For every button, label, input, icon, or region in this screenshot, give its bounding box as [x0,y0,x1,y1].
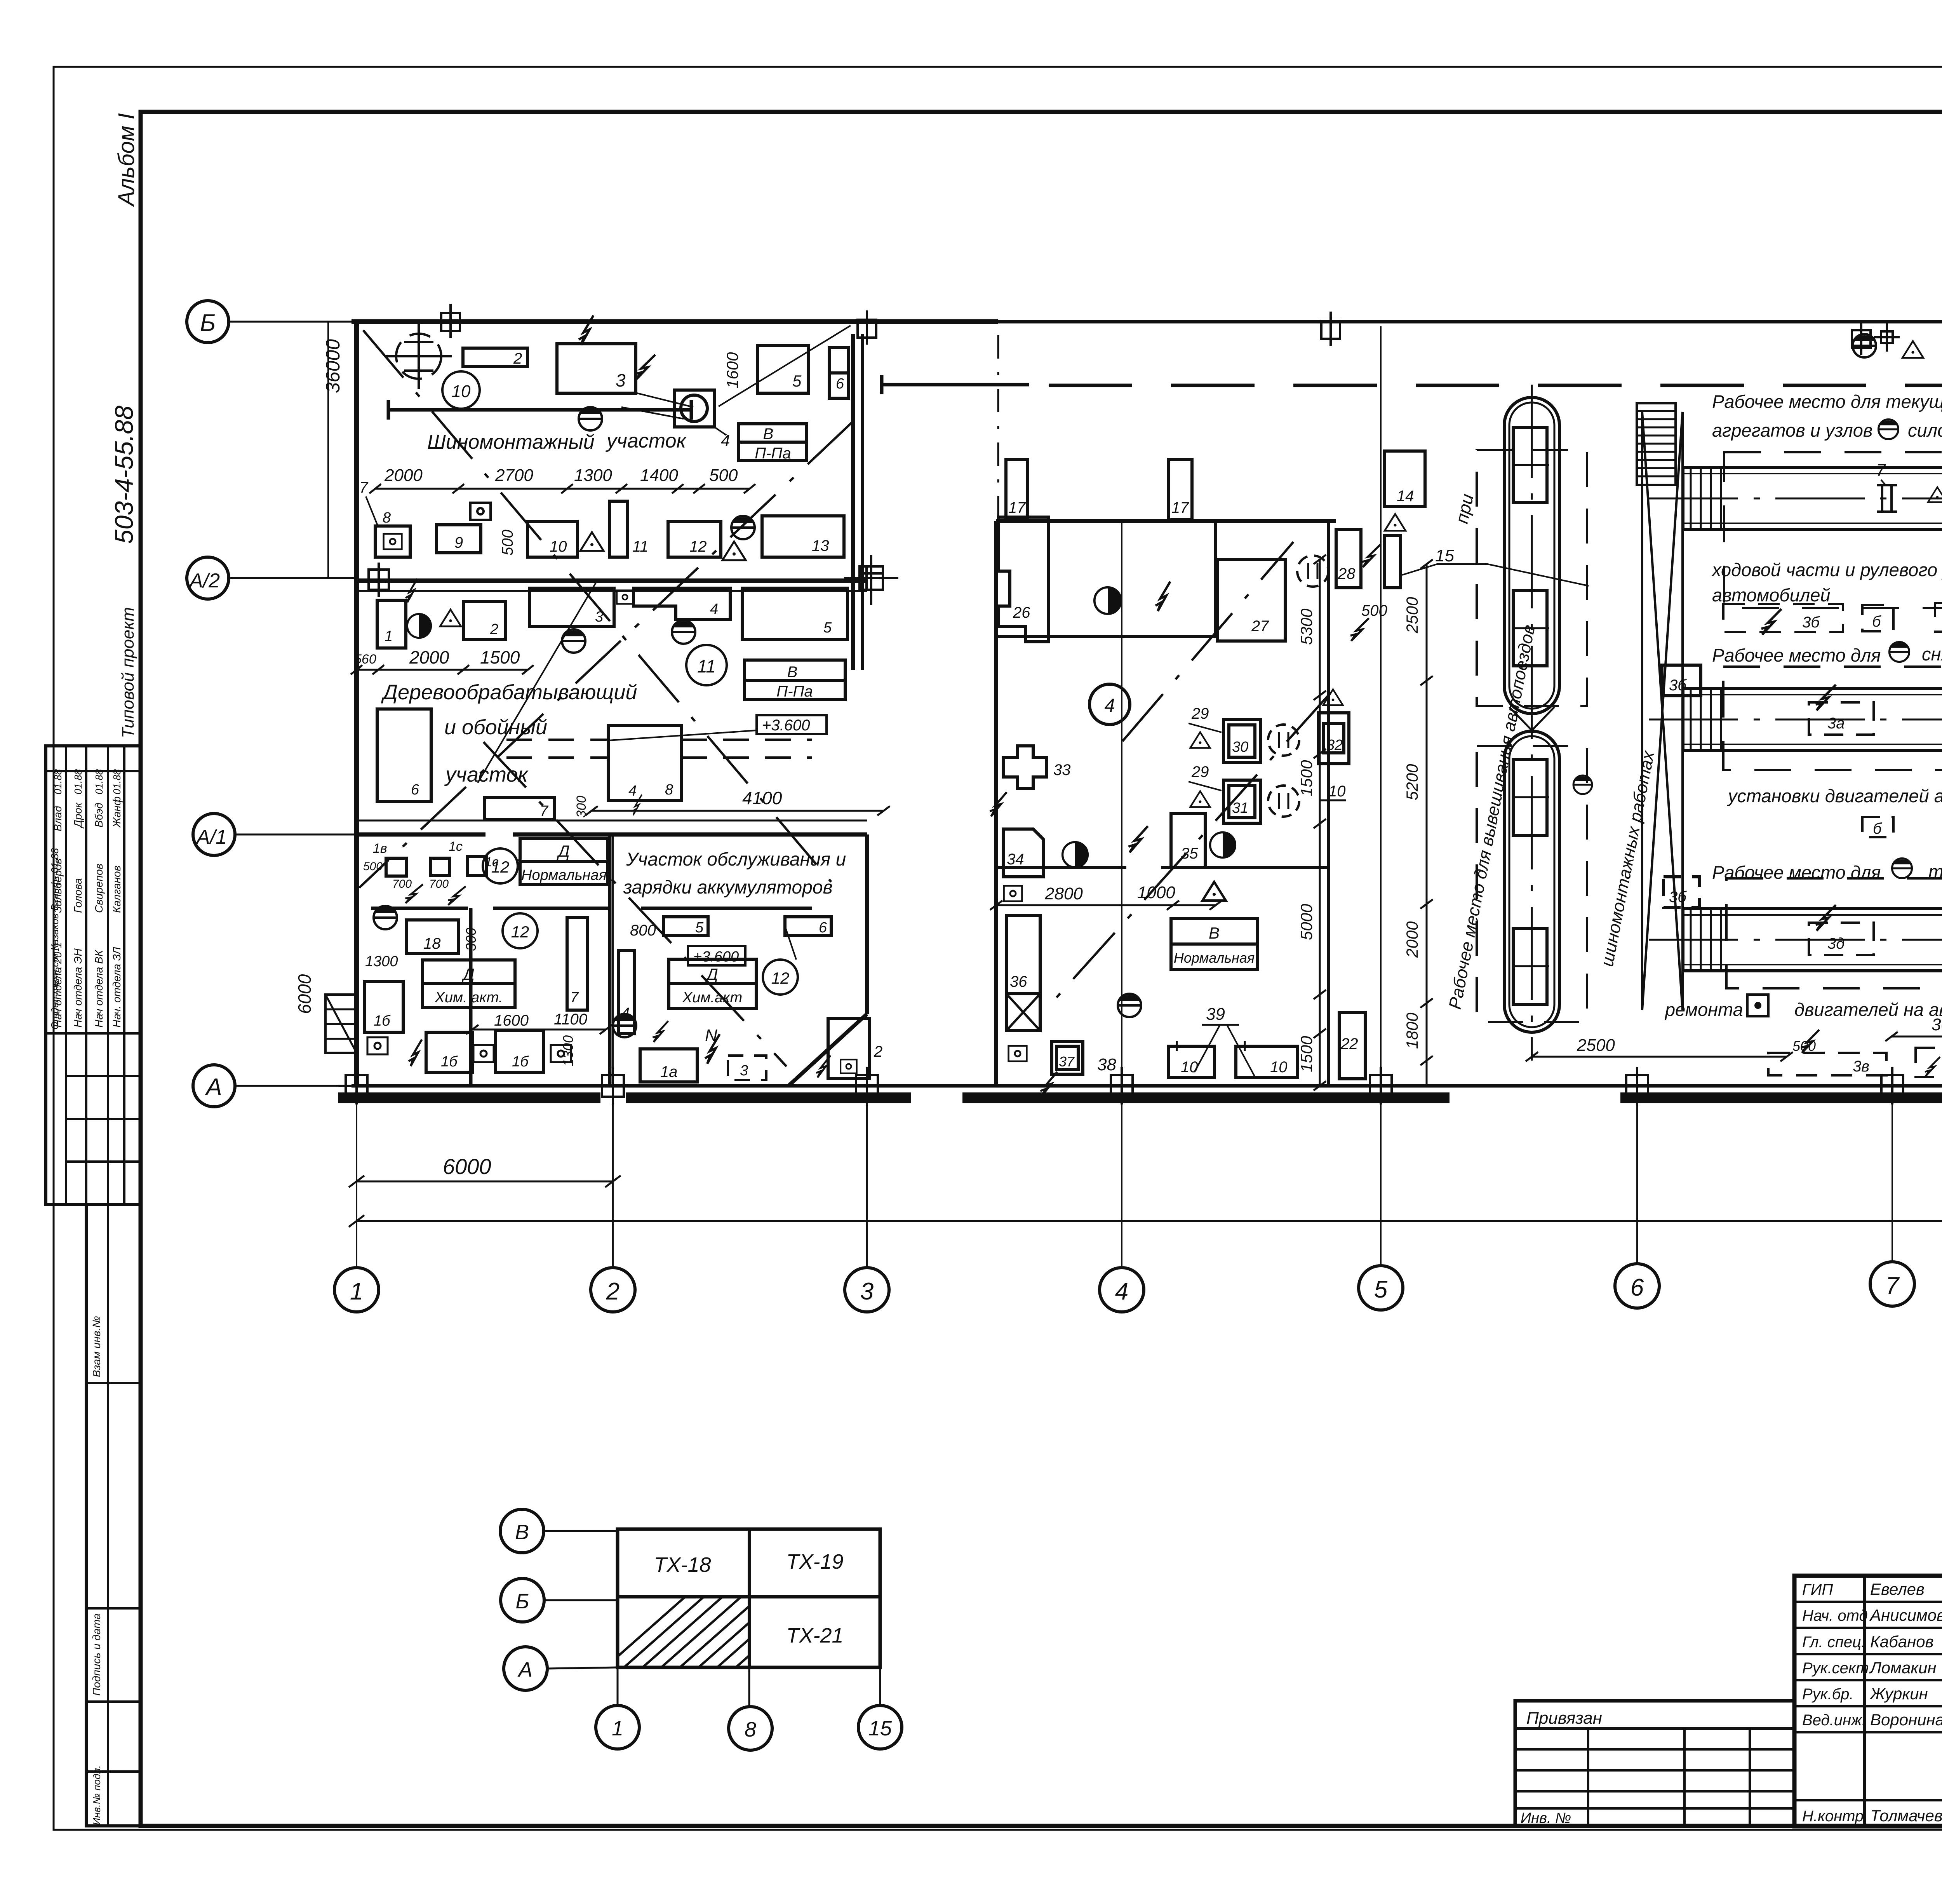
svg-text:7: 7 [1876,461,1886,480]
svg-text:Привязан: Привязан [1526,1709,1602,1728]
left wall [354,319,359,1086]
row axes leaders [229,321,357,323]
svg-text:ТХ-18: ТХ-18 [654,1553,711,1577]
svg-text:и обойный: и обойный [444,716,547,739]
svg-text:33: 33 [1053,761,1071,779]
equipment 6 [829,348,849,398]
svg-text:Голова: Голова [72,878,84,913]
svg-text:5000: 5000 [1297,904,1316,940]
key plan outline [618,1529,880,1667]
accum partitions [371,907,468,910]
svg-text:1800: 1800 [1403,1012,1421,1049]
svg-text:П-Па: П-Па [755,445,791,462]
circle label 10 [442,371,480,409]
equipment 3 [557,344,636,393]
svg-text:2: 2 [874,1043,882,1060]
svg-text:Гл. спец.: Гл. спец. [1802,1634,1865,1651]
machine 8 big [608,726,681,800]
vertical dim chain x=3673 [1426,564,1428,1086]
svg-text:+3.600: +3.600 [693,949,739,965]
svg-text:3б: 3б [1802,614,1820,631]
equipment 16 column [365,981,403,1032]
external stair hatch [325,995,357,1053]
label Д Нормальная [520,838,608,885]
rack 15 [1384,535,1401,588]
dash-dot diagonal middle [1049,695,1328,1006]
top right symbols [1853,334,1876,357]
svg-text:9: 9 [454,534,463,551]
svg-text:1б: 1б [374,1013,391,1029]
elevation +3.600 [757,715,827,734]
svg-text:11: 11 [632,538,649,555]
stair ladder top [1637,403,1676,485]
label В Нормальная [1171,918,1257,969]
svg-text:1а: 1а [660,1063,678,1080]
svg-text:4: 4 [1105,695,1115,716]
svg-text:1600: 1600 [494,1012,529,1029]
machine 12 [668,522,721,557]
machine 35 [1171,814,1205,868]
svg-text:22: 22 [1340,1035,1358,1052]
svg-text:2000: 2000 [409,647,449,667]
label Д Хим.акт #2 [669,959,756,1009]
svg-text:17: 17 [1171,499,1189,516]
dashed work zone around pits [1477,450,1587,706]
svg-text:5: 5 [823,620,832,636]
svg-text:1: 1 [612,1717,623,1740]
svg-text:1100: 1100 [554,1011,587,1028]
svg-text:12: 12 [689,538,707,555]
svg-text:500: 500 [363,860,383,873]
svg-text:Ломакин: Ломакин [1869,1658,1937,1677]
svg-text:Альбом I: Альбом I [114,113,139,207]
wall on axis А/1 [357,833,486,837]
svg-text:3в: 3в [1853,1058,1869,1075]
svg-text:Взам инв.№: Взам инв.№ [90,1316,103,1377]
svg-text:Хим. акт.: Хим. акт. [435,989,503,1006]
equipment 2 shelf [463,348,527,367]
bench 7 [485,798,554,819]
svg-text:7: 7 [1886,1272,1900,1299]
svg-text:560: 560 [354,652,376,667]
machine 3 [529,588,614,627]
svg-text:Отдел техн ст Казаков Вга: Отдел техн ст Казаков Вганф- 01.88 [49,848,61,1030]
equipment 18 [406,920,459,954]
svg-text:31: 31 [1232,800,1248,816]
machine 37 38 [1009,1046,1027,1061]
svg-text:3а: 3а [1827,715,1845,732]
svg-text:А/2: А/2 [188,570,220,592]
leader diagonal [478,579,598,783]
solid box 3б [1662,665,1701,696]
machine 10 [527,522,578,557]
svg-text:29: 29 [1191,763,1209,780]
svg-text:2: 2 [513,350,522,367]
svg-text:6000: 6000 [443,1154,491,1179]
svg-text:Д: Д [557,842,570,860]
N mark [705,1034,720,1064]
svg-text:В: В [515,1521,529,1544]
svg-text:Рабочее место для: Рабочее место для [1712,862,1881,883]
machine 1 [377,600,406,648]
wall on axis А/2 [357,578,867,583]
machine 34 [1003,829,1043,877]
svg-text:01.88: 01.88 [111,769,123,794]
bottom machines [426,1032,472,1072]
svg-text:агрегатов и узлов: агрегатов и узлов [1712,420,1872,441]
svg-text:2: 2 [490,621,498,638]
svg-text:2800: 2800 [1044,884,1083,903]
svg-text:Толмачева: Толмачева [1870,1806,1942,1825]
svg-text:800: 800 [630,922,656,939]
svg-text:Инв.№ подл.: Инв.№ подл. [91,1765,103,1825]
svg-text:26: 26 [1013,604,1030,621]
svg-text:А/1: А/1 [195,826,227,848]
machine 26 stepped [999,517,1049,642]
vertical dim chain at x 3398 [1319,559,1321,1086]
svg-text:Нормальная: Нормальная [521,867,607,883]
svg-text:35: 35 [1181,845,1198,862]
chamfer wall [788,1014,867,1086]
category label В / П-IIа #2 [745,660,845,700]
svg-text:снятия и: снятия и [1922,644,1942,664]
svg-text:А: А [517,1658,532,1681]
svg-text:6: 6 [411,782,419,798]
svg-text:автомобилей: автомобилей [1712,585,1831,605]
section diagonals dash-dot [359,330,853,1066]
svg-text:Нач отдела ВК: Нач отдела ВК [93,949,105,1028]
svg-text:30: 30 [1232,739,1248,755]
svg-text:01.88: 01.88 [93,769,105,794]
svg-text:27: 27 [1251,618,1269,635]
svg-text:12: 12 [771,969,790,987]
machine 28 [1336,530,1361,588]
svg-text:Деревообрабатывающий: Деревообрабатывающий [381,681,637,704]
svg-text:2000: 2000 [384,466,423,485]
dashed 3 [728,1056,766,1080]
svg-text:12: 12 [491,858,510,876]
svg-text:двигателей на автомобиле: двигателей на автомобиле [1794,999,1942,1020]
svg-text:10: 10 [1270,1059,1288,1076]
top wall [352,319,998,324]
solid box 3б #2 [1664,877,1699,908]
svg-text:Вбэд: Вбэд [93,803,105,827]
small battery boxes [386,858,406,876]
svg-text:7: 7 [570,989,579,1006]
svg-text:36: 36 [1010,973,1027,990]
svg-text:10: 10 [1181,1059,1198,1076]
equipment 1а [640,1049,697,1082]
svg-text:38: 38 [1097,1055,1116,1074]
svg-text:6: 6 [836,376,844,392]
svg-text:3000: 3000 [1932,1015,1942,1034]
signature table [46,746,141,1204]
machine 8 [375,526,410,557]
truck outline [1683,688,1942,751]
svg-text:17: 17 [1008,499,1026,516]
svg-text:1500: 1500 [480,647,520,667]
crane beam middle [882,383,1029,387]
dim 6000 [357,1181,613,1183]
svg-text:Рук.бр.: Рук.бр. [1802,1686,1854,1703]
svg-text:1б: 1б [441,1054,458,1070]
circle label 11 [686,645,727,685]
svg-text:34: 34 [1007,851,1024,868]
big circle 4 [1089,684,1130,725]
partial wall right of left block [851,334,855,670]
svg-text:4: 4 [1115,1278,1128,1305]
svg-text:участок: участок [444,763,529,786]
svg-text:15: 15 [868,1717,892,1740]
dashed conveyor rail [506,739,608,741]
lattice brace column [1642,412,1683,1010]
tyre machine 4 [674,390,714,427]
svg-text:4: 4 [710,601,718,617]
svg-text:1300: 1300 [365,953,398,970]
svg-text:участок: участок [606,430,687,452]
crane dashed line [1049,384,1942,387]
truck outline [1683,467,1942,530]
svg-text:А: А [204,1074,222,1101]
svg-text:5200: 5200 [1403,764,1421,800]
svg-text:5300: 5300 [1297,608,1316,645]
svg-text:6000: 6000 [294,974,315,1014]
svg-text:700: 700 [429,878,449,890]
dims 2800 1000 [990,901,1222,910]
svg-text:6: 6 [819,920,827,936]
lightning strikes [579,315,593,345]
svg-text:3: 3 [616,370,626,390]
machine 11 [609,501,627,557]
svg-text:36000: 36000 [322,339,344,393]
svg-text:Нач. отд: Нач. отд [1802,1607,1868,1624]
svg-text:2500: 2500 [1577,1036,1615,1055]
svg-text:2: 2 [606,1278,619,1305]
svg-text:11: 11 [697,656,716,676]
svg-text:Хим.акт: Хим.акт [682,989,742,1006]
svg-text:Жанф: Жанф [111,796,123,828]
svg-text:Вед.инж.: Вед.инж. [1802,1712,1866,1729]
svg-text:10: 10 [550,538,567,555]
machine 13 [762,516,844,557]
svg-text:Рабочее место для: Рабочее место для [1712,645,1881,665]
svg-text:ходовой части и рулевого управ: ходовой части и рулевого управления [1711,559,1942,580]
machine 36 [1006,915,1040,994]
plinth strips [338,1092,600,1103]
svg-text:1: 1 [350,1278,363,1305]
machine 4 [633,588,730,619]
svg-text:Рабочее место для текущего ре: Рабочее место для текущего ремонта [1712,391,1942,412]
svg-text:3б: 3б [1669,888,1687,906]
svg-text:8: 8 [665,782,673,798]
svg-text:15: 15 [1435,546,1454,565]
column bubbles [334,1268,379,1312]
svg-text:503-4-55.88: 503-4-55.88 [110,406,138,544]
svg-text:500: 500 [499,530,516,556]
svg-text:1с: 1с [449,839,463,854]
svg-text:б: б [1873,820,1882,837]
machine 5 [742,588,847,639]
dim 2500 bottom [1526,1052,1793,1061]
svg-text:6: 6 [1631,1274,1644,1301]
row grid bubbles [187,301,229,343]
svg-text:2500: 2500 [1403,597,1421,634]
svg-text:Подпись и дата: Подпись и дата [90,1613,103,1696]
monorail beam left block [388,408,691,412]
svg-text:+3.600: +3.600 [762,717,810,734]
svg-text:зарядки аккумуляторов: зарядки аккумуляторов [623,877,833,898]
machine 9 [470,503,491,520]
svg-text:Журкин: Журкин [1869,1685,1928,1703]
svg-text:Дрок: Дрок [72,802,84,829]
machine 6 tall [377,709,431,801]
svg-text:5: 5 [792,372,802,390]
svg-text:2700: 2700 [495,466,533,485]
machine 33 [1003,746,1046,789]
svg-text:силовой передачи: силовой передачи [1908,420,1942,441]
svg-text:ГИП: ГИП [1802,1581,1833,1598]
slab edge line [357,820,867,822]
axis leader dash-dot [997,335,999,521]
svg-text:500: 500 [1361,602,1387,619]
svg-text:П-Па: П-Па [776,683,813,700]
svg-text:7: 7 [359,479,369,496]
svg-text:1300: 1300 [574,466,612,485]
svg-text:5: 5 [1374,1276,1388,1303]
svg-text:10: 10 [452,382,471,401]
svg-text:8: 8 [745,1718,756,1741]
svg-text:ремонта: ремонта [1664,999,1743,1020]
svg-text:8: 8 [383,510,391,526]
svg-text:Рук.сект.: Рук.сект. [1802,1660,1873,1677]
valve symbol [579,407,602,430]
svg-text:1400: 1400 [640,466,678,485]
svg-text:ТХ-21: ТХ-21 [786,1624,843,1647]
svg-text:Нач. отдела ЗЛ: Нач. отдела ЗЛ [111,947,123,1028]
svg-text:Нормальная: Нормальная [1174,950,1255,966]
svg-text:300: 300 [463,928,479,951]
svg-text:5: 5 [695,920,704,936]
bin 14 [1384,451,1425,507]
machine 27 [1217,559,1285,641]
dim 4100 [585,806,890,815]
equipment 2 tall [828,1019,870,1078]
svg-text:14: 14 [1397,488,1414,505]
category label В / П-IIа [739,424,807,461]
svg-text:01.88: 01.88 [72,769,84,794]
svg-text:700: 700 [392,878,412,890]
leader to equipment 4 [637,393,693,407]
svg-text:Инв. №: Инв. № [1521,1810,1571,1826]
column axes [356,1086,357,1268]
svg-text:1500: 1500 [1297,760,1316,796]
svg-text:установки двигателей авт: установки двигателей автомобилей [1727,786,1942,806]
rack 32 [1319,713,1349,764]
svg-text:б: б [1872,613,1881,630]
svg-text:N: N [705,1026,717,1045]
svg-text:Б: Б [515,1590,529,1613]
svg-text:13: 13 [812,537,829,554]
svg-text:Анисимов: Анисимов [1869,1606,1942,1624]
bottom wall [352,1084,1942,1088]
svg-text:Влад: Влад [52,806,64,831]
vehicles in pit 1 [1513,427,1547,503]
svg-text:Б: Б [200,310,216,336]
svg-text:4100: 4100 [742,788,782,808]
svg-text:500: 500 [709,466,738,485]
svg-text:В: В [787,664,798,681]
equipment 5 [757,345,808,393]
svg-text:4: 4 [628,783,637,799]
svg-text:Нач отдела ЭН: Нач отдела ЭН [72,948,84,1028]
shelf 5 and 6 [663,917,708,935]
svg-text:Воронина: Воронина [1870,1711,1942,1729]
svg-text:1600: 1600 [723,352,741,388]
svg-text:37: 37 [1059,1054,1075,1070]
svg-text:Типовой проект: Типовой проект [118,607,137,738]
svg-text:39: 39 [1206,1005,1225,1024]
label Д Хим.акт #1 [423,960,515,1008]
svg-text:29: 29 [1191,705,1209,722]
svg-text:1300: 1300 [560,1035,576,1066]
truck outline [1683,909,1942,971]
svg-text:ТХ-19: ТХ-19 [786,1550,843,1573]
svg-text:12: 12 [511,923,529,941]
svg-text:3: 3 [860,1278,874,1305]
svg-text:Н.контр.: Н.контр. [1802,1808,1868,1825]
svg-text:1: 1 [385,628,393,645]
svg-text:Свирепов: Свирепов [93,864,105,913]
svg-text:1в: 1в [373,841,387,856]
svg-text:1500: 1500 [1297,1036,1316,1072]
rack 22 [1339,1012,1365,1079]
svg-text:В: В [1209,924,1220,942]
svg-text:28: 28 [1338,565,1356,582]
rack 17 #2 [1169,460,1192,520]
svg-text:32: 32 [1326,737,1343,753]
svg-text:3: 3 [740,1063,748,1079]
rack 17 #1 [1006,460,1028,520]
svg-text:1б: 1б [512,1054,529,1070]
theodolite circle symbol [386,323,452,389]
svg-text:Калганов: Калганов [111,866,123,913]
svg-text:10: 10 [1328,783,1346,800]
svg-text:01.88: 01.88 [52,769,64,794]
svg-text:2000: 2000 [1403,921,1421,958]
dim 84000 [357,1220,1942,1222]
svg-text:18: 18 [423,935,441,952]
svg-text:В: В [763,425,774,442]
svg-text:Кабанов: Кабанов [1870,1632,1934,1651]
lower stamp [86,1204,141,1826]
svg-text:Д: Д [461,965,475,983]
svg-text:Евелев: Евелев [1870,1580,1925,1598]
middle block walls [994,521,998,1086]
machine 2 [463,601,505,639]
svg-text:3д: 3д [1827,935,1845,952]
